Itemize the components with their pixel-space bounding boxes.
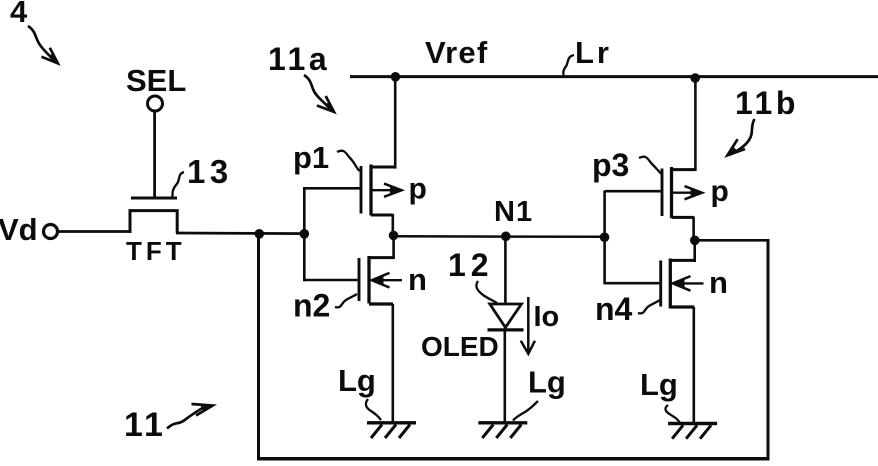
label p1 <box>293 140 360 175</box>
svg-text:Lg: Lg <box>640 367 678 402</box>
pmos p1 <box>304 165 401 216</box>
transistor 13 TFT channel hump <box>130 211 177 233</box>
svg-text:Lr: Lr <box>575 35 612 70</box>
pmos p3 <box>605 167 702 218</box>
ground Lg left <box>367 423 416 438</box>
wire n2 source to ground <box>391 304 394 422</box>
svg-text:n4: n4 <box>595 291 633 327</box>
feedback wire right vertical <box>767 240 770 460</box>
node dot inverter2 output <box>690 236 700 246</box>
junction dot rail to p3 <box>690 73 700 83</box>
svg-text:4: 4 <box>10 0 28 29</box>
wire N1 <box>394 235 606 238</box>
svg-text:12: 12 <box>448 247 494 283</box>
leader arrow from 4 <box>28 26 58 63</box>
label Lg middle <box>513 365 566 421</box>
label Lg left <box>338 363 381 420</box>
wire gate bus vertical inverter1 <box>303 187 306 281</box>
wire output node to n4 drain <box>693 241 696 262</box>
svg-text:Vref: Vref <box>425 35 488 70</box>
wire TFT to gate bus <box>176 232 306 235</box>
nmos n2 <box>304 256 402 304</box>
svg-text:13: 13 <box>187 153 233 190</box>
terminal Vd <box>0 212 58 247</box>
wire p3 drain to output node <box>692 217 695 242</box>
junction dot rail to p1 <box>391 72 401 82</box>
svg-text:11b: 11b <box>735 85 799 121</box>
node junction inverter1 gate bus <box>300 229 310 239</box>
svg-text:SEL: SEL <box>126 63 186 98</box>
svg-text:n2: n2 <box>293 288 330 324</box>
Vref rail Lr <box>350 75 878 78</box>
svg-text:p1: p1 <box>293 140 329 175</box>
wire OLED cathode to ground <box>503 330 506 422</box>
feedback wire left vertical <box>257 234 260 460</box>
svg-text:n: n <box>408 262 427 297</box>
svg-text:TFT: TFT <box>126 236 186 266</box>
label 12 <box>448 247 497 303</box>
current arrow Io <box>521 297 535 354</box>
label n2 <box>293 288 357 324</box>
svg-text:Io: Io <box>534 301 560 333</box>
wire p1 drain to node N1 <box>391 214 394 236</box>
svg-text:p3: p3 <box>592 147 629 183</box>
svg-text:p: p <box>409 173 427 206</box>
wire rail down to p3 <box>694 78 697 171</box>
nmos n4 <box>605 259 704 309</box>
wire Vd to TFT <box>58 230 131 233</box>
label 11 <box>124 404 213 444</box>
terminal SEL <box>126 63 186 111</box>
svg-text:Lg: Lg <box>528 365 566 400</box>
feedback wire bottom <box>257 457 770 461</box>
svg-text:11a: 11a <box>268 41 330 77</box>
label 11b <box>727 85 798 155</box>
wire rail down to p1 <box>394 77 397 169</box>
svg-text:N1: N1 <box>494 196 533 228</box>
label Lg right <box>640 367 680 423</box>
node dot inverter1 output <box>389 231 399 241</box>
svg-text:n: n <box>709 265 728 300</box>
wire gate bus vertical inverter2 <box>603 191 606 285</box>
wire N1 down to OLED anode <box>504 236 507 305</box>
svg-text:Vd: Vd <box>0 212 38 247</box>
wire n4 source to ground <box>692 307 695 424</box>
junction dot N1 to OLED <box>501 232 511 242</box>
svg-text:OLED: OLED <box>421 331 499 362</box>
wire SEL to TFT gate <box>153 112 156 199</box>
svg-text:Lg: Lg <box>338 363 376 398</box>
label Lr <box>563 35 612 77</box>
svg-text:p: p <box>711 175 729 208</box>
ground Lg middle <box>478 423 527 438</box>
feedback wire right <box>695 239 770 242</box>
label n4 <box>595 291 660 327</box>
transistor 13 TFT gate bar <box>131 197 177 200</box>
label p3 <box>592 147 662 183</box>
svg-text:11: 11 <box>124 406 166 444</box>
label 11a <box>268 41 334 112</box>
OLED diode 12 <box>488 304 524 330</box>
wire node to n2 drain <box>392 236 395 259</box>
node junction feedback tap <box>254 229 264 239</box>
label 13 <box>172 153 232 198</box>
ground Lg right <box>668 424 717 439</box>
junction dot N1 to inverter2 gates <box>600 232 610 242</box>
